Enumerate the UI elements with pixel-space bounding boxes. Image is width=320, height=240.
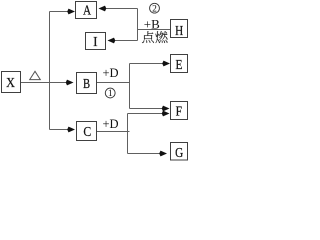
label circled 2 [150,3,160,14]
wire arrow into A from left [50,11,75,13]
box G [171,143,188,161]
wire arrow into F lower [128,113,169,115]
box C [77,122,97,141]
wire B out [97,82,130,84]
wire C branch vertical [127,114,129,154]
label triangle heat symbol [30,71,41,79]
svg-text:A: A [83,2,92,17]
box A [76,2,97,19]
label circled 1 [105,88,115,99]
svg-text:+D: +D [102,66,118,80]
wire arrow into E [130,63,170,65]
svg-text:F: F [176,103,182,118]
svg-text:B: B [83,75,90,91]
wire X to B [21,82,73,84]
svg-text:2: 2 [152,4,157,14]
box F [171,102,188,120]
wire arrow into A from right [100,8,138,10]
wire line to H [138,29,171,31]
svg-text:E: E [175,57,182,72]
svg-text:X: X [6,74,15,90]
box E [171,55,188,73]
svg-text:+D: +D [102,117,118,131]
wire right vertical trunk [137,9,139,41]
svg-text:I: I [93,33,98,48]
wire arrow into G [128,153,167,155]
wire arrow into I [109,40,138,42]
wire C out [97,131,130,133]
svg-text:1: 1 [108,89,113,99]
svg-text:H: H [175,23,183,38]
svg-text:G: G [175,145,183,160]
svg-text:C: C [83,123,91,139]
box H [171,20,188,38]
label dian ran [142,31,167,43]
wire B branch vertical [129,64,131,109]
box I [86,33,106,50]
svg-text:+B: +B [144,17,160,32]
wire left trunk vertical [49,12,51,130]
box X [2,72,21,93]
wire arrow into F upper [130,108,169,110]
box B [77,73,97,94]
wire arrow into C [50,129,75,131]
